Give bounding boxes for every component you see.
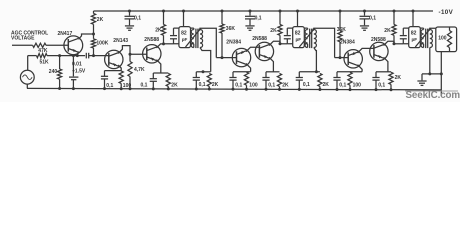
svg-text:2K: 2K	[155, 28, 162, 34]
svg-text:2K: 2K	[97, 17, 104, 23]
svg-text:4,7K: 4,7K	[134, 67, 145, 73]
svg-text:100: 100	[353, 82, 362, 88]
svg-text:2N588: 2N588	[144, 37, 159, 43]
svg-text:0,1: 0,1	[369, 15, 376, 21]
svg-text:0,1: 0,1	[378, 82, 385, 88]
svg-text:0,1: 0,1	[255, 15, 262, 21]
svg-text:0,1: 0,1	[106, 83, 113, 89]
svg-text:2K: 2K	[270, 28, 277, 34]
svg-text:2K: 2K	[171, 82, 178, 88]
svg-text:pF: pF	[412, 37, 418, 42]
svg-text:82: 82	[295, 31, 301, 37]
svg-text:0,1: 0,1	[268, 82, 275, 88]
svg-text:2N588: 2N588	[252, 36, 267, 42]
svg-text:0,1: 0,1	[303, 82, 310, 88]
svg-text:2N384: 2N384	[340, 39, 355, 45]
svg-text:0,1: 0,1	[141, 82, 148, 88]
svg-text:100: 100	[123, 83, 132, 89]
svg-text:+1.5V: +1.5V	[72, 69, 86, 75]
svg-text:2K: 2K	[384, 28, 391, 34]
svg-text:82: 82	[411, 31, 417, 37]
svg-text:VOLTAGE: VOLTAGE	[11, 35, 35, 41]
svg-text:100: 100	[438, 35, 447, 41]
svg-text:2K: 2K	[395, 75, 402, 81]
svg-text:2K: 2K	[282, 82, 289, 88]
svg-text:100: 100	[249, 82, 258, 88]
svg-text:0,1: 0,1	[235, 82, 242, 88]
svg-text:2K: 2K	[212, 82, 219, 88]
svg-text:36K: 36K	[226, 26, 236, 32]
svg-text:36K: 36K	[337, 27, 347, 33]
svg-text:pF: pF	[296, 37, 302, 42]
svg-text:240: 240	[49, 69, 58, 75]
svg-text:pF: pF	[182, 37, 188, 42]
svg-text:SeekIC.com: SeekIC.com	[406, 90, 460, 101]
svg-text:51K: 51K	[40, 59, 50, 65]
svg-text:100K: 100K	[96, 41, 108, 47]
svg-text:2N143: 2N143	[113, 38, 128, 44]
svg-text:0,1: 0,1	[134, 15, 141, 21]
svg-text:-10V: -10V	[439, 9, 454, 16]
svg-text:2K: 2K	[323, 82, 330, 88]
svg-text:0.01: 0.01	[72, 61, 82, 67]
svg-text:0,1: 0,1	[199, 82, 206, 88]
svg-text:2N384: 2N384	[226, 39, 241, 45]
svg-text:82: 82	[181, 31, 187, 37]
svg-text:0,1: 0,1	[339, 82, 346, 88]
